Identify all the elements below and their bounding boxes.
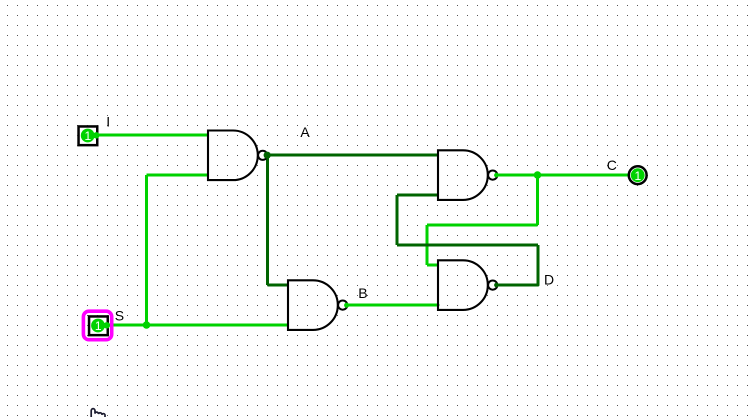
wire net C feedback vertical xyxy=(426,225,429,265)
NAND gate U4 xyxy=(438,260,497,310)
wire net D (U4 output rightward) xyxy=(497,284,538,287)
wire net B (U3 output to U4 bottom input) xyxy=(348,304,439,307)
NAND gate U2 xyxy=(438,150,497,200)
output pin C xyxy=(629,166,647,184)
svg-text:1: 1 xyxy=(95,319,102,333)
svg-text:D: D xyxy=(544,271,554,287)
label C xyxy=(607,157,617,173)
label S xyxy=(115,308,124,324)
input pin S xyxy=(89,316,110,335)
wire net S to U1 bottom input xyxy=(147,174,209,177)
wire net D feedback horizontal xyxy=(397,244,538,247)
svg-text:B: B xyxy=(358,285,367,301)
label B xyxy=(358,285,367,301)
wire net S vertical riser xyxy=(145,175,148,325)
wire net C to U4 top input xyxy=(427,264,438,267)
port dot net B at U3 output xyxy=(344,303,349,308)
label A xyxy=(300,124,310,140)
wire net D vertical rise xyxy=(537,245,540,285)
selection halo of pin S xyxy=(83,311,111,340)
NAND gate U3 xyxy=(288,280,347,330)
wire net A vertical drop xyxy=(266,155,269,285)
label I xyxy=(106,113,110,129)
wire net C horizontal (U2 output to pin C) xyxy=(497,174,629,177)
wire net A horizontal (U1 output to U2 top input) xyxy=(268,154,439,157)
input pin I xyxy=(79,126,100,145)
wire net D feedback vertical xyxy=(396,195,399,245)
port dot net C at U2 output xyxy=(494,173,499,178)
wire net C vertical drop xyxy=(536,175,539,225)
svg-text:1: 1 xyxy=(85,129,92,143)
junction net S xyxy=(143,321,151,329)
svg-text:I: I xyxy=(106,113,110,129)
junction net C xyxy=(534,171,542,179)
wire net S horizontal (pin S to U3 bottom input) xyxy=(107,324,288,327)
wire net C feedback horizontal xyxy=(427,224,538,227)
wire net D to U2 bottom input xyxy=(397,194,438,197)
port dot net D at U4 output xyxy=(494,283,499,288)
svg-text:S: S xyxy=(115,308,124,324)
wire net A to U3 top input xyxy=(268,284,289,287)
svg-text:1: 1 xyxy=(635,169,642,183)
mouse cursor (hand pointer, clipped at bottom edge) xyxy=(91,409,105,417)
wire net I (pin I to U1 top input) xyxy=(97,134,208,137)
junction net A xyxy=(264,152,271,159)
svg-text:C: C xyxy=(607,157,617,173)
label D xyxy=(544,271,554,287)
svg-text:A: A xyxy=(300,124,310,140)
NAND gate U1 xyxy=(208,131,267,181)
